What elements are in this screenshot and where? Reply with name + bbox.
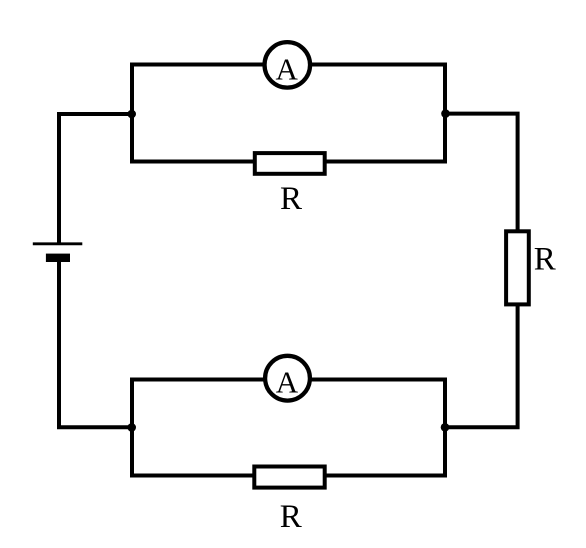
- wire: right side run from node C through R2 down to node D: [445, 114, 518, 428]
- battery cell: short thick negative plate: [46, 254, 70, 262]
- wire: left top connector from battery + terminal up and right to node A: [59, 114, 132, 244]
- node D (bottom right junction): [441, 423, 450, 432]
- battery cell: long thin positive plate: [33, 242, 83, 245]
- wire: left bottom connector from battery - terminal down and right to node B: [59, 258, 132, 427]
- wire: top parallel loop (ammeter A1 / resistor R1 branch): [132, 65, 445, 162]
- svg-text:A: A: [276, 364, 299, 399]
- svg-text:R: R: [280, 499, 302, 535]
- svg-text:R: R: [280, 181, 302, 217]
- resistor R3 body (bottom branch): [254, 467, 324, 488]
- svg-text:A: A: [276, 51, 299, 86]
- svg-text:R: R: [534, 242, 556, 278]
- node C (top right junction): [441, 109, 450, 118]
- ammeter A2 circle: [265, 356, 310, 401]
- resistor R1 body (top branch): [255, 153, 325, 174]
- node A (top left junction): [127, 110, 136, 119]
- resistor R2 body (right side, vertical): [506, 231, 529, 304]
- node B (bottom left junction): [127, 423, 136, 432]
- wire: bottom parallel loop (ammeter A2 / resistor R3 branch): [132, 380, 445, 476]
- ammeter A1 circle: [265, 42, 311, 88]
